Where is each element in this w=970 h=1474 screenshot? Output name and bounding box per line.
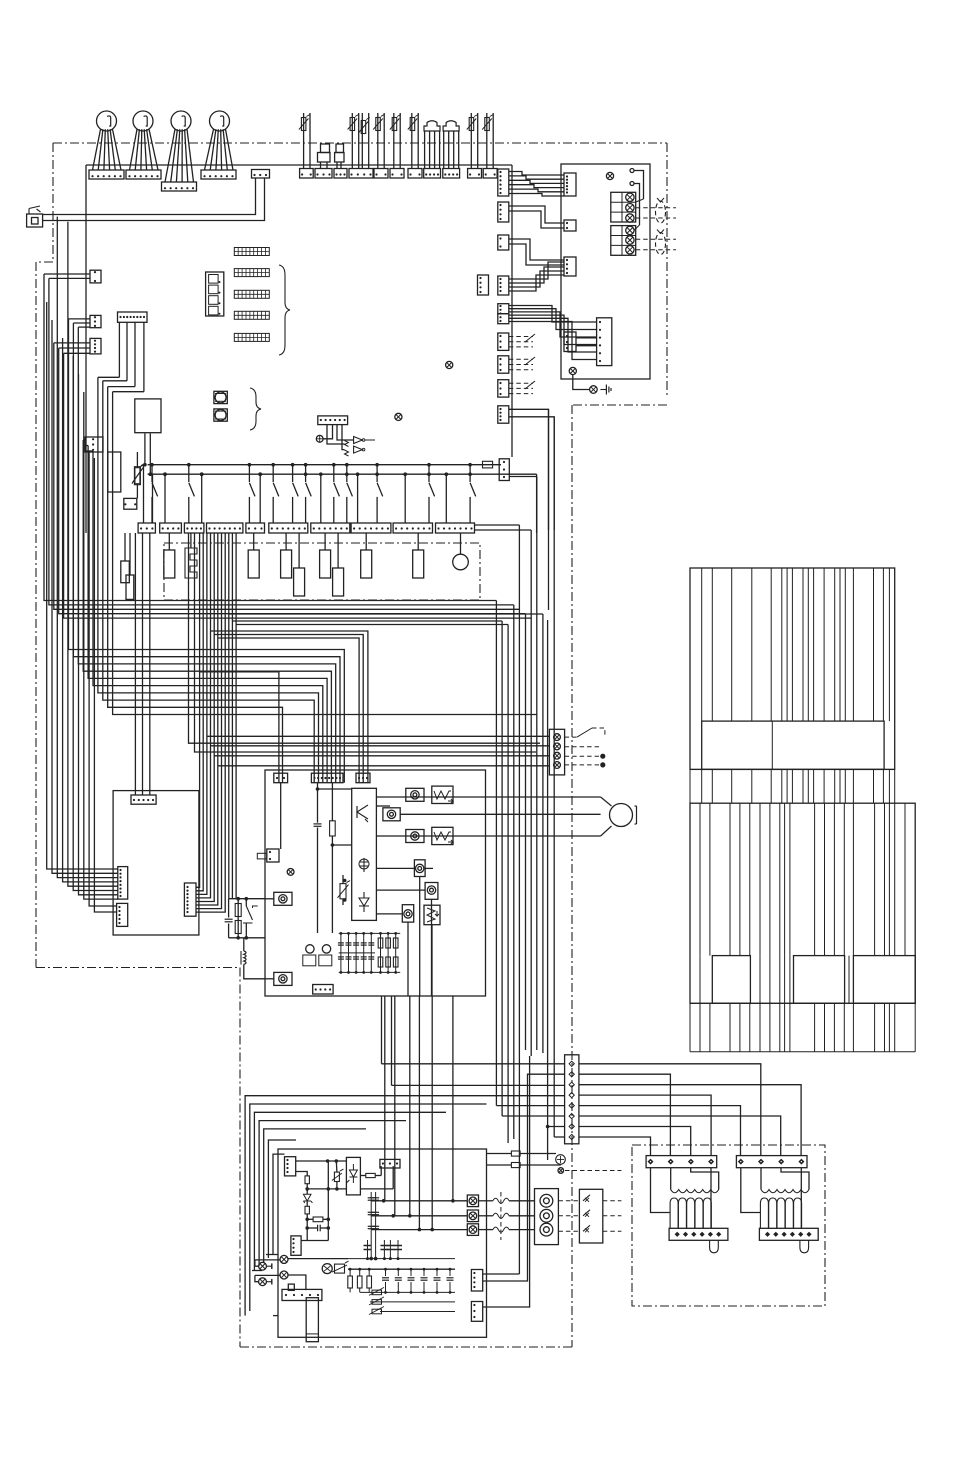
relay PCB screw (606, 172, 613, 179)
strip stub (288, 1284, 294, 1290)
motor connector (201, 170, 236, 179)
wire: bus B corner down (536, 474, 538, 533)
wire: inverter 2pin drop (280, 783, 282, 849)
sub board left connector 8pin (118, 867, 128, 900)
wire: CN to interlock switch (43, 178, 256, 215)
thermistor TH3 + leads (377, 113, 379, 169)
inverter left lower sense resistor (274, 972, 292, 985)
cap symbols on lines (368, 1197, 375, 1199)
wire: inverter right drops (419, 877, 421, 997)
connector CNE 6pin stepped (498, 304, 509, 314)
7-segment display block (206, 272, 224, 316)
dashed option circle 2 (656, 233, 666, 255)
motor connector (89, 170, 124, 179)
ground symbol (600, 389, 606, 391)
wire: pin8 from below (553, 417, 555, 1137)
sub board right connector (184, 883, 196, 916)
connector CNF 3pin w/ dashed contact (498, 333, 509, 350)
keyed terminals left (259, 1262, 267, 1270)
heater mid connector band (689, 769, 691, 803)
connector CN8 2pin (124, 498, 137, 509)
fuse F2 (511, 1151, 520, 1156)
wire: feeds of mid right bundle (475, 524, 520, 526)
main control board left edge (85, 165, 87, 533)
inverter resistor R1 (330, 821, 336, 836)
IGBT transistor symbol (356, 806, 358, 818)
relay PCB module CN (597, 318, 612, 366)
gate buffer triangles (354, 437, 363, 454)
motor connector (126, 170, 161, 179)
screw hole (446, 361, 453, 368)
connector CNJ 4pin bottom (498, 406, 509, 423)
wire: inverter bottom drops to power lines and strip (381, 996, 383, 1064)
dropper resistor (305, 1176, 309, 1184)
wire: mid vertical (327, 1161, 329, 1241)
inverter connector 8pin (311, 773, 343, 783)
inverter bottom connector (313, 985, 333, 995)
terminal strip X2M (565, 1055, 579, 1144)
connector CNH 3pin w/ dashed contact (498, 380, 509, 397)
transformer output connector (669, 1228, 728, 1240)
dashed option circle 1 (656, 201, 666, 223)
wire: CN6 drops to west bundle (118, 322, 120, 377)
zigzag component (190, 533, 192, 548)
sense resistor F (402, 905, 413, 922)
filter varistors (372, 1290, 382, 1295)
compressor terminal block (549, 729, 564, 775)
power board connector 5pin left (291, 1236, 301, 1255)
dashed links to breaker (558, 1200, 579, 1202)
inverter left sense resistor (274, 892, 292, 905)
relay supply bus line A (148, 464, 501, 466)
terminal block TB1 lower (611, 226, 636, 256)
wire: links to IGBT (318, 788, 352, 790)
relay PCB outline (561, 164, 650, 379)
start relay contact (245, 899, 247, 906)
filter lower rails (360, 1291, 455, 1293)
filter rail (348, 1268, 455, 1270)
wire: CNJ line down (548, 409, 550, 610)
gate rail (307, 1188, 346, 1190)
CT sensor boxes (467, 1195, 478, 1207)
wire: tap to inverter 2pin (200, 672, 279, 783)
wire: CNC east (509, 239, 564, 260)
relay supply bus line B (148, 473, 537, 475)
surge absorber A (432, 786, 453, 803)
inverter screw (287, 869, 294, 876)
wire: CND to relay board 4pin (509, 262, 564, 279)
main control board right edge (511, 165, 513, 457)
component box B1 (108, 452, 121, 492)
wire: CN7 to gates (323, 425, 332, 439)
start resistor network (229, 898, 265, 900)
dashed earth lead (565, 1170, 621, 1172)
connector CN7 6pin (318, 416, 348, 425)
filter resistors (349, 1269, 351, 1276)
wire: reactor to board (243, 938, 245, 951)
wire: pigtails into terminals (636, 199, 644, 202)
inverter connector 3pin (356, 773, 370, 783)
resistor 2 (305, 1206, 309, 1214)
sensor connector row (300, 169, 314, 179)
protective earth symbol (556, 1155, 566, 1165)
thermistor TH5 + leads (411, 113, 413, 169)
heater resistor bank upper (690, 568, 895, 769)
thermistor TH2 pair + leads (351, 113, 353, 169)
connector CNW 4pin standalone (478, 275, 489, 295)
wire: CNB to relay board 2pin (509, 206, 564, 223)
wire: CNA fan to relay board (509, 172, 564, 176)
coil box circle component (460, 533, 462, 554)
smoothing cap columns (370, 1192, 372, 1259)
wire: taps to inverter 3pin (211, 631, 368, 783)
wire: motor terminal feeds from risers (207, 735, 550, 737)
thermistor TH7 + leads (486, 113, 488, 169)
thermistor TH1 + leads (303, 113, 305, 169)
transformer primary winding (761, 1190, 809, 1193)
fuse F1 on bus (483, 461, 493, 468)
relay PCB connector small left (564, 332, 576, 352)
heater upper label band (702, 721, 884, 769)
wire: module link (576, 337, 597, 339)
wire bundle: left risers to east staircase (44, 274, 496, 601)
resistor horizontal (313, 1217, 323, 1222)
SCR block (346, 1157, 360, 1195)
relay circles pair (306, 945, 314, 953)
thermistor TH4 + leads (393, 113, 395, 169)
wire bundle: relay row main drops (196, 533, 200, 887)
fuse F3 (511, 1163, 520, 1168)
connector CN4 (90, 338, 101, 354)
frame: dash-dot jog left side (36, 261, 53, 263)
frame: top dash-dot border of upper unit (53, 142, 667, 144)
zener diode (303, 1194, 312, 1203)
relay PCB connector 4pin left (564, 257, 576, 276)
CT squiggles + dashed (479, 1200, 493, 1202)
main power rails (371, 1200, 467, 1202)
power board connector CN 4pin (285, 1157, 296, 1176)
inverter sense resistor B (383, 808, 400, 821)
sub board top connector (131, 795, 156, 804)
gate resistor (366, 1173, 375, 1177)
wire: dropper chain (296, 1172, 308, 1177)
wire: CNE to relay CN module (509, 306, 597, 323)
transformer loop tail (800, 1240, 809, 1253)
start cap symbol (322, 1264, 332, 1274)
resistor columns (380, 933, 382, 972)
transformer primary winding (671, 1190, 719, 1193)
wire: left connector taps (44, 273, 90, 275)
fan motor at x=219.5 (210, 111, 230, 131)
inverter sense resistor C (406, 830, 424, 843)
wire bundle: mid drops to sub-board top connector (134, 533, 136, 795)
pressure sensor LPS leads (443, 131, 445, 169)
LED D1 indicator (316, 435, 323, 442)
frame: dash-dot vertical x=240 (239, 968, 241, 1348)
frame: transformer unit dash-dot box (632, 1145, 825, 1306)
pilot circles (280, 1255, 288, 1263)
heater resistor bank lower (690, 803, 915, 1003)
heater bottom band (690, 1002, 915, 1004)
filter caps (385, 1269, 387, 1276)
frame: right dash-dot border upper unit (666, 143, 668, 396)
wire: relay box3 drops east (189, 533, 541, 743)
gate transistor squiggles (345, 441, 349, 457)
connector CN2 2pin (90, 270, 101, 283)
fan motor at x=181 (171, 111, 191, 131)
wire: inverter outputs to compressor (376, 796, 600, 798)
wire: pin7 junction vertical (547, 620, 549, 1160)
main terminal block X1M (535, 1189, 559, 1245)
relay contacts row (150, 463, 154, 467)
bus end box (499, 459, 509, 481)
wire: ground link (573, 375, 589, 390)
fan motor at x=143 (133, 111, 153, 131)
heater lower label bands (712, 956, 750, 1004)
wire: bus drop to relay connector 1 (152, 474, 154, 523)
wire: lower-left horizontals to board (266, 1254, 278, 1256)
connector CNG 3pin w/ dashed contact (498, 356, 509, 373)
tall rect (306, 1298, 318, 1342)
connector CNA 6pin right edge (498, 169, 509, 196)
wire: transformer primary legs (741, 1168, 761, 1213)
screw hole (395, 413, 402, 420)
inverter left connector (267, 849, 279, 862)
inverter sense resistor A (406, 788, 424, 801)
power thermistor (334, 1172, 339, 1181)
buzzer BZ2 (214, 409, 227, 421)
transformer output connector (759, 1228, 818, 1240)
dashed contact from terminal 1 (565, 736, 577, 738)
connector CN3 (90, 315, 101, 327)
compressor motor (610, 804, 633, 827)
wire: igbt internals (376, 805, 390, 807)
wire: transformer primary legs (651, 1168, 671, 1213)
inverter connector 2pin (274, 773, 288, 783)
motor lead fan (165, 129, 175, 182)
brace for buzzers (250, 388, 261, 430)
frame: bottom dash-dot of left unit y=967 (36, 967, 239, 969)
transformer secondary loops (670, 1198, 678, 1228)
inverter thermistor (340, 884, 346, 899)
interlock switch S1 (27, 214, 43, 227)
pigtail circles (630, 169, 634, 173)
terminal block TB1 upper (611, 192, 636, 222)
module X1 box (135, 399, 161, 433)
thermistor TH8 (134, 467, 140, 485)
ground screw 2 (590, 386, 598, 394)
sense resistor D (414, 860, 425, 877)
wire: strip to transformer box staircase (579, 1064, 761, 1156)
power board right connectors (471, 1270, 482, 1292)
connector CN6 8pin horizontal (118, 312, 148, 322)
wire: right connectors east-up (483, 1273, 520, 1275)
motor lead fan (205, 129, 214, 170)
wire: pilot rails (288, 1258, 348, 1260)
lower cap row (367, 1240, 369, 1259)
capacitor (317, 1225, 319, 1232)
wire: CNJ east then down (right bundle feed) (509, 409, 549, 530)
transformer terminal strip (646, 1156, 717, 1168)
transformer loop tail (710, 1240, 719, 1253)
junction dots relay bus (163, 472, 167, 476)
vertical rect pair (124, 533, 126, 561)
power board connector 3pin top (380, 1159, 400, 1168)
surge absorber B (432, 827, 453, 844)
wire bundle: power board west riser staircase (245, 1096, 564, 1316)
wire: CN rail east (296, 1160, 347, 1162)
dashed terminal leads (636, 207, 676, 209)
float switch boxes (318, 153, 331, 163)
main control board top edge (86, 164, 512, 166)
transformer secondary loops (760, 1198, 768, 1228)
start resistors (237, 899, 239, 938)
relay PCB connector 6pin left (564, 173, 576, 196)
motor lead fan (130, 129, 138, 170)
thermistor TH6 + leads (470, 113, 472, 169)
earth screw (558, 1168, 564, 1174)
connector CND 4pin (498, 276, 509, 295)
pressure sensor HPS leads (424, 131, 426, 169)
cap bank grid (340, 933, 342, 972)
relay coil components in dash-dot box (168, 533, 170, 550)
buzzer BZ1 (214, 391, 227, 403)
IGBT power module (352, 788, 377, 920)
connector CNC 2pin (498, 235, 509, 250)
wire: taps east to right bus (229, 613, 543, 615)
connector CN top-left 3pin (252, 170, 270, 179)
wire bundle: right-side vertical bus (495, 601, 497, 1106)
sense resistor E (425, 883, 438, 900)
power board outline (278, 1149, 487, 1337)
motor lead fan (93, 129, 101, 170)
frame: relay coil dash-dot box (164, 543, 480, 600)
IGBT mid symbol (360, 858, 368, 872)
sub board outline (113, 791, 199, 935)
dashed leads + dots (565, 746, 599, 748)
wire: module to bus (144, 433, 146, 464)
lower hang component 2 (337, 533, 339, 568)
frame: bottom dash-dot y=1347 (240, 1346, 572, 1348)
frame: dash-dot jog right side (572, 404, 667, 406)
connector CNB 4pin (498, 202, 509, 222)
horizontal connector strip (282, 1289, 322, 1300)
heater bottom edge (690, 1051, 915, 1053)
field breaker 3-pole (579, 1189, 602, 1243)
reactor L1 (244, 951, 246, 964)
thermistor on lead (136, 452, 138, 468)
IGBT diode symbol (359, 892, 369, 912)
surge absorber C vertical (424, 905, 440, 925)
lower hang component 1 (298, 533, 300, 568)
fan motor at x=106.5 (97, 111, 117, 131)
wire bundle: left risers to sub-board (47, 302, 118, 869)
inverter board outline (265, 770, 486, 996)
connector CN5 (85, 437, 103, 452)
filter thermistor (335, 1264, 345, 1273)
relay output connector row (138, 523, 155, 533)
frame: left dash-dot border upper (52, 143, 54, 262)
relay PCB connector 2pin left (564, 220, 576, 231)
inverter cap C1 (314, 823, 322, 825)
DIP switch striped block row (234, 248, 269, 256)
motor connector (162, 182, 197, 191)
frame: dash-dot vertical x=572 (571, 405, 573, 1347)
brace for DIP switches (279, 265, 290, 355)
transformer terminal strip (736, 1156, 807, 1168)
frame: left dash-dot border x=36 (35, 262, 37, 968)
relay PCB ground screw (569, 367, 576, 374)
sub board left connector 5pin (117, 903, 128, 926)
